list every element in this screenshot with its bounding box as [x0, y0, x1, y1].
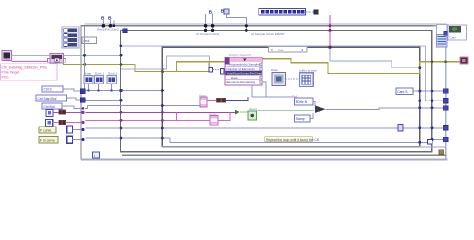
svg-text:AI Convert Clock: AI Convert Clock [196, 32, 220, 36]
svg-text:DAQmx Read Pr: DAQmx Read Pr [229, 53, 251, 57]
svg-text:Ctrl_DataFlag_StMaster_PXIe: Ctrl_DataFlag_StMaster_PXIe [2, 65, 48, 69]
svg-text:Dev1/PXI1Slot2: Dev1/PXI1Slot2 [97, 28, 119, 32]
svg-text:buffer st wait: buffer st wait [299, 69, 317, 73]
svg-text:Dout 2: Dout 2 [108, 72, 117, 76]
svg-text:F in curve: F in curve [40, 138, 55, 142]
svg-text:B: B [209, 9, 213, 15]
svg-text:Cam: Cam [450, 36, 457, 40]
svg-text:Samp: Samp [296, 117, 305, 121]
svg-text:Data: Data [231, 76, 238, 80]
svg-text:AI Sample Clock 10MHz: AI Sample Clock 10MHz [251, 32, 285, 36]
svg-text:50Hz N: 50Hz N [296, 100, 308, 104]
svg-text:Elements Remaining: Elements Remaining [227, 80, 256, 84]
svg-text:PXIe Target: PXIe Target [2, 70, 20, 74]
svg-text:i: i [94, 153, 95, 158]
svg-text:Acquisition(s) Sampled: Acquisition(s) Sampled [229, 62, 261, 66]
svg-text:Snap: Snap [84, 72, 92, 76]
svg-text:count: count [249, 107, 257, 111]
svg-text:Number of Elements: Number of Elements [227, 67, 256, 71]
svg-text:Repeat the loop until it found: Repeat the loop until it found the CS [266, 138, 320, 142]
svg-text:Data: Data [271, 68, 278, 72]
svg-text:Dout 1: Dout 1 [95, 72, 104, 76]
svg-text:F curve: F curve [40, 129, 51, 133]
svg-text:x: x [271, 48, 273, 52]
svg-text:Cam S: Cam S [397, 90, 408, 94]
svg-text:x: x [302, 48, 304, 52]
svg-text:Ctrl S: Ctrl S [44, 88, 53, 92]
svg-text:Ctrl Start Buf: Ctrl Start Buf [38, 97, 57, 101]
svg-text:PXI1: PXI1 [2, 75, 9, 79]
svg-text:AvailNumSampsPerChan: AvailNumSampsPerChan [227, 71, 262, 75]
svg-text:Cas: Cas [278, 48, 284, 52]
svg-text:Ctrl Buf: Ctrl Buf [44, 105, 55, 109]
